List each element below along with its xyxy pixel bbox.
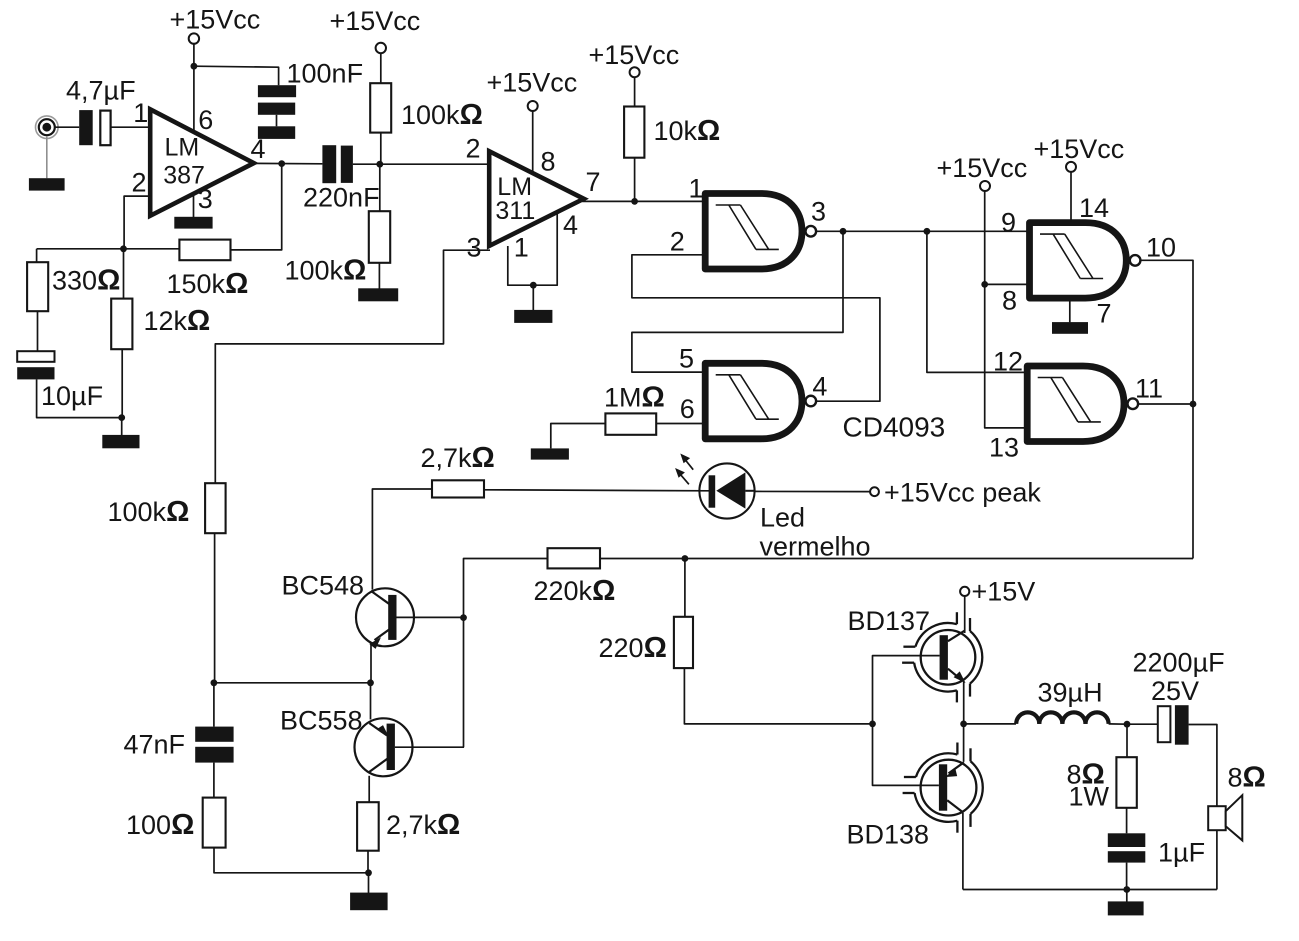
svg-text:4,7µF: 4,7µF (66, 76, 136, 106)
label pin 5 gate (679, 344, 694, 374)
wire C1 to pin 1 (111, 126, 151, 128)
svg-text:+15Vcc: +15Vcc (937, 153, 1028, 183)
svg-text:3: 3 (198, 184, 213, 214)
svg-text:10µF: 10µF (41, 381, 103, 411)
wire U2 gnd (532, 285, 534, 310)
transistor Q1 BC548 (356, 588, 464, 649)
label 4,7uF (66, 76, 136, 106)
label 330Ohm (52, 265, 120, 297)
wire R10 down (214, 533, 216, 683)
label BD138 (847, 820, 930, 850)
ground below jack (29, 178, 65, 190)
label BC548 (282, 571, 365, 601)
svg-text:LM: LM (165, 134, 200, 162)
label 220kOhm (534, 575, 616, 607)
label 8Ohm (R14) (1067, 759, 1105, 791)
op-amp U2 LM311 (489, 151, 584, 246)
terminal +15Vcc peak (870, 487, 879, 496)
svg-text:220nF: 220nF (303, 183, 380, 213)
wire Q2 emitter (370, 683, 372, 720)
svg-text:BD138: BD138 (847, 820, 930, 850)
wire node to ground (368, 873, 370, 893)
svg-text:2: 2 (670, 226, 685, 256)
svg-text:11: 11 (1135, 374, 1163, 404)
wire C7 to rail (1126, 863, 1128, 890)
label 100Ohm (126, 809, 194, 841)
resistor R13 220 (674, 617, 693, 668)
ground below pin3 U1 (174, 217, 212, 229)
wire U3B out to pin2 U3A (632, 255, 880, 401)
wire 1M to ground (551, 424, 606, 449)
terminal +15V (960, 587, 969, 596)
svg-text:100kΩ: 100kΩ (401, 99, 483, 131)
svg-text:1: 1 (689, 174, 704, 204)
wire 2,7k to BC548 collector (372, 489, 432, 590)
wire R4 to node (380, 133, 382, 165)
wire 1M to pin6 U3B (656, 423, 706, 425)
label +15V (972, 577, 1036, 607)
capacitor C1 4,7uF (79, 110, 110, 145)
node U3D out (1190, 401, 1197, 408)
label pin 2 gate (670, 226, 685, 256)
svg-text:330Ω: 330Ω (52, 265, 120, 297)
terminal +15Vcc U3 right (1066, 162, 1076, 172)
label CD4093 (843, 412, 946, 443)
wire Q2 collector (368, 776, 370, 802)
label +15Vcc (U2) (487, 68, 578, 98)
label 39uH (1038, 678, 1103, 708)
label +15Vcc (R4) (330, 6, 421, 36)
label 47nF (124, 730, 186, 760)
label pin 11 gate (1135, 374, 1163, 404)
wire 2,7k to LED (484, 490, 709, 491)
label 100nF (287, 59, 364, 89)
node bottom rail (1123, 886, 1130, 893)
ground pin 7 (1052, 322, 1088, 334)
label BC558 (280, 706, 363, 736)
svg-text:9: 9 (1001, 208, 1016, 238)
label 2200uF (1133, 648, 1225, 678)
svg-text:+15Vcc: +15Vcc (487, 68, 578, 98)
ground below R5 (358, 288, 398, 301)
label pin 7 gate (1097, 299, 1112, 329)
svg-text:3: 3 (467, 233, 482, 263)
label pin 1 U2 (514, 233, 529, 263)
svg-text:4: 4 (563, 210, 578, 240)
wire U3C gnd pin7 (1069, 301, 1071, 322)
label pin 1 LM387 (133, 98, 148, 128)
svg-text:8Ω: 8Ω (1228, 762, 1266, 794)
ground below 1M (531, 448, 569, 459)
ground below 12k (102, 435, 139, 448)
nand gate U3C (1030, 223, 1141, 299)
wire jack ground stem (46, 136, 48, 178)
resistor R12 2,7k vertical (357, 802, 379, 851)
label pin 8 gate (1002, 286, 1017, 316)
label 2,7kOhm vertical (386, 809, 460, 841)
wire base rail (873, 656, 940, 786)
wire feedback row (600, 558, 1193, 560)
label 220Ohm (599, 632, 667, 664)
wire node to C6 (1127, 723, 1158, 725)
label +15Vcc peak (884, 478, 1041, 508)
node pin8 rail (981, 281, 988, 288)
nand gate U3D (1027, 366, 1138, 442)
wire C2 to ground (276, 115, 278, 127)
label pin 12 gate (993, 347, 1023, 377)
node filter (1124, 721, 1131, 728)
svg-text:1: 1 (133, 98, 148, 128)
label 1uF (1158, 838, 1205, 868)
wire U3C out down (1141, 260, 1194, 558)
label +15Vcc (U3 right) (1034, 134, 1125, 164)
wire rail to ground (1126, 890, 1128, 902)
wire pin3 U2 route (215, 250, 490, 483)
label pin 3 LM387 (198, 184, 213, 214)
svg-text:CD4093: CD4093 (843, 412, 946, 443)
svg-text:4: 4 (812, 371, 827, 401)
wire output to L1 (964, 723, 1016, 725)
svg-text:Led: Led (760, 503, 805, 533)
label 100kOhm lower (285, 255, 367, 287)
wire L1 to node (1109, 723, 1127, 725)
node pins 1-4 (530, 282, 537, 289)
terminal +15Vcc U3 left (980, 181, 990, 191)
node emitter row right (367, 679, 374, 686)
wire +15Vcc to pin8 (532, 111, 534, 173)
svg-text:+15Vcc: +15Vcc (1034, 134, 1125, 164)
svg-text:14: 14 (1079, 193, 1109, 223)
svg-text:+15Vcc: +15Vcc (170, 5, 261, 35)
wire C6 to speaker (1189, 725, 1217, 807)
label 220nF (303, 183, 380, 213)
label vermelho (760, 532, 871, 562)
svg-text:1W: 1W (1069, 782, 1110, 812)
wire speaker to rail (1216, 830, 1218, 889)
label 100kOhm mid (108, 496, 190, 528)
input jack J1 (36, 116, 59, 139)
wire +15Vcc to pin8 and pin13 (985, 191, 1028, 428)
node output 10k (631, 198, 638, 205)
label 150kOhm (167, 268, 249, 300)
svg-text:220Ω: 220Ω (599, 632, 667, 664)
capacitor C5 47nF (195, 727, 233, 763)
label pin 14 gate (1079, 193, 1109, 223)
svg-text:150kΩ: 150kΩ (167, 268, 249, 300)
terminal +15Vcc R6 (630, 67, 640, 77)
resistor R7 1M (605, 413, 656, 434)
resistor R10 100k (205, 483, 226, 533)
wire LED to terminal (755, 490, 871, 492)
ground below Q2 branch (350, 893, 388, 911)
label 25V (1151, 676, 1199, 706)
label pin 13 gate (989, 433, 1019, 463)
resistor R4 100k (370, 83, 391, 132)
wire jack to C1 (56, 126, 80, 128)
wire pin2 U1 (124, 196, 151, 249)
wire C4 to U2 (353, 163, 490, 165)
label pin 4 LM387 (251, 134, 266, 164)
svg-text:8: 8 (1002, 286, 1017, 316)
wire bottom rail (963, 889, 1217, 891)
wire C5 to R11 (213, 763, 215, 798)
svg-text:BD137: BD137 (848, 606, 931, 636)
svg-text:13: 13 (989, 433, 1019, 463)
svg-text:100Ω: 100Ω (126, 809, 194, 841)
svg-text:7: 7 (586, 167, 601, 197)
node U1 output (278, 160, 285, 167)
label pin 1 gate (689, 174, 704, 204)
svg-text:2200µF: 2200µF (1133, 648, 1225, 678)
label 8Ohm speaker (1228, 762, 1266, 794)
wire R6 to node (634, 158, 636, 202)
label 12kOhm (144, 305, 211, 337)
wire R1 to C3 (37, 311, 39, 351)
label 1W (1069, 782, 1110, 812)
wire node to ground (121, 418, 123, 435)
node U3A out a (840, 228, 847, 235)
node C4 right (376, 161, 383, 168)
wire R12 down (367, 851, 369, 873)
svg-text:2: 2 (466, 134, 481, 164)
led D1 (699, 463, 754, 518)
terminal +15Vcc R4 (376, 43, 386, 53)
wire row to R2 (123, 249, 125, 299)
label pin 6 gate (680, 394, 695, 424)
svg-text:2: 2 (132, 168, 147, 198)
wire terminal to R6 (634, 78, 636, 107)
wire Q3 emitter (963, 682, 965, 724)
wire U3D out (1138, 403, 1193, 405)
wire +15Vcc to pin6 (193, 44, 195, 132)
svg-text:+15V: +15V (972, 577, 1036, 607)
svg-text:100kΩ: 100kΩ (108, 496, 190, 528)
label pin 8 U2 (541, 147, 556, 177)
label pin 9 gate (1001, 208, 1016, 238)
transistor Q2 BC558 (355, 718, 465, 776)
wire node to R5 (379, 164, 381, 211)
wire +15V to Q3 collector (964, 596, 966, 633)
resistor R3 150k (179, 240, 230, 261)
label +15Vcc (U1) (170, 5, 261, 35)
capacitor C2 100nF (258, 85, 296, 115)
label 1MOhm (604, 382, 665, 414)
nand gate U3A (705, 194, 816, 270)
label BD137 (848, 606, 931, 636)
label pin 10 gate (1146, 233, 1176, 263)
led arrows (675, 454, 693, 485)
resistor R5 100k (369, 211, 390, 263)
label +15Vcc (R6) (589, 40, 680, 70)
resistor R14 8R 1W (1116, 757, 1136, 808)
terminal +15Vcc U2 (528, 101, 538, 111)
label pin 3 gate (811, 197, 826, 227)
transistor Q3 BD137 (902, 612, 982, 702)
wire R2 down (121, 349, 123, 417)
label pin 6 (198, 105, 213, 135)
node rail U1 (191, 63, 198, 70)
svg-text:1: 1 (514, 233, 529, 263)
svg-text:5: 5 (679, 344, 694, 374)
wire rail to C2 (194, 66, 279, 85)
node bases (869, 721, 876, 728)
node bottom left (118, 414, 125, 421)
wire node to pin8 U3C (985, 283, 1030, 285)
label pin 2 U2 (466, 134, 481, 164)
resistor R11 100 (203, 798, 226, 848)
wire feedback to R13 (684, 559, 686, 617)
svg-text:vermelho: vermelho (760, 532, 871, 562)
resistor R6 10k (624, 107, 644, 158)
ground below U2 (514, 310, 552, 323)
svg-text:+15Vcc: +15Vcc (589, 40, 680, 70)
wire row to R1 (36, 249, 38, 262)
node emitter row left (211, 679, 218, 686)
terminal +15Vcc U1 (189, 33, 199, 43)
svg-text:2,7kΩ: 2,7kΩ (386, 809, 460, 841)
wire U1 output (253, 162, 323, 164)
node feedback 220R (682, 555, 689, 562)
label 100kOhm upper (401, 99, 483, 131)
wire U3A out right (816, 230, 1030, 232)
svg-text:8: 8 (541, 147, 556, 177)
wire R14 to C7 (1126, 808, 1128, 834)
svg-text:6: 6 (680, 394, 695, 424)
wire emitter row (214, 682, 371, 684)
svg-text:3: 3 (811, 197, 826, 227)
label pin 3 U2 (467, 233, 482, 263)
node base BC548 (460, 614, 467, 621)
nand gate U3B (705, 363, 816, 439)
svg-text:10: 10 (1146, 233, 1176, 263)
wire Q4 collector (962, 813, 964, 890)
label 2,7kOhm horizontal (421, 442, 495, 474)
wire U2 output (582, 200, 706, 202)
label pin 2 LM387 (132, 168, 147, 198)
capacitor C3 10uF (17, 351, 54, 379)
node output emitters (960, 721, 967, 728)
wire R13 to bases (684, 668, 872, 724)
svg-text:311: 311 (495, 197, 535, 225)
node U3A out b (924, 228, 931, 235)
svg-text:10kΩ: 10kΩ (654, 115, 721, 147)
svg-text:100kΩ: 100kΩ (285, 255, 367, 287)
svg-text:1µF: 1µF (1158, 838, 1205, 868)
node inverting row (120, 245, 127, 252)
svg-text:12kΩ: 12kΩ (144, 305, 211, 337)
transistor Q4 BD138 (903, 743, 983, 833)
wire Q4 emitter (963, 724, 965, 762)
svg-text:BC548: BC548 (282, 571, 365, 601)
svg-text:220kΩ: 220kΩ (534, 575, 616, 607)
label pin 4 U2 (563, 210, 578, 240)
wire R5 to ground (378, 263, 380, 289)
label pin 4 gate (812, 371, 827, 401)
ground bottom (1108, 901, 1144, 915)
ground below C2 (258, 126, 295, 139)
label 10uF (41, 381, 103, 411)
svg-text:+15Vcc peak: +15Vcc peak (884, 478, 1041, 508)
svg-text:2,7kΩ: 2,7kΩ (421, 442, 495, 474)
svg-text:100nF: 100nF (287, 59, 364, 89)
inductor L1 39uH (1016, 712, 1108, 724)
wire +15Vcc to pin14 (1070, 172, 1072, 222)
resistor R1 330 (27, 262, 48, 311)
capacitor C7 1uF (1108, 833, 1146, 862)
svg-text:6: 6 (198, 105, 213, 135)
wire node to pin12 U3D (927, 231, 1028, 372)
svg-text:25V: 25V (1151, 676, 1199, 706)
label +15Vcc (U3 left) (937, 153, 1028, 183)
label Led (760, 503, 805, 533)
wire terminal to R4 (380, 53, 382, 83)
svg-text:1MΩ: 1MΩ (604, 382, 665, 414)
node ground row (365, 869, 372, 876)
resistor R9 2,7k (432, 480, 484, 497)
svg-text:+15Vcc: +15Vcc (330, 6, 421, 36)
resistor R2 12k (111, 299, 132, 350)
wire R11 down (214, 848, 369, 873)
svg-text:39µH: 39µH (1038, 678, 1103, 708)
capacitor C6 2200uF (1158, 705, 1189, 745)
op-amp U1 LM387 (150, 109, 254, 216)
svg-text:7: 7 (1097, 299, 1112, 329)
wire 220k to bases (464, 559, 548, 748)
wire U2 out to pin1 U3A (635, 200, 706, 202)
resistor R8 220k (548, 548, 601, 568)
wire node to R14 (1126, 724, 1128, 757)
svg-text:47nF: 47nF (124, 730, 186, 760)
wire 150k to output (231, 164, 282, 250)
label pin 7 U2 (586, 167, 601, 197)
svg-text:BC558: BC558 (280, 706, 363, 736)
wire Q1 emitter (370, 645, 372, 683)
wire U3A out to pin5 U3B (632, 231, 843, 372)
wire inverting row (37, 248, 180, 250)
capacitor C4 220nF (322, 145, 353, 183)
wire pin3 U1 to ground (193, 195, 195, 218)
wire C3 down (37, 379, 122, 417)
wire pins 1-4 U2 (508, 212, 557, 285)
label 10kOhm (654, 115, 721, 147)
wire node to C5 (213, 683, 215, 727)
speaker SP1 (1208, 795, 1242, 840)
